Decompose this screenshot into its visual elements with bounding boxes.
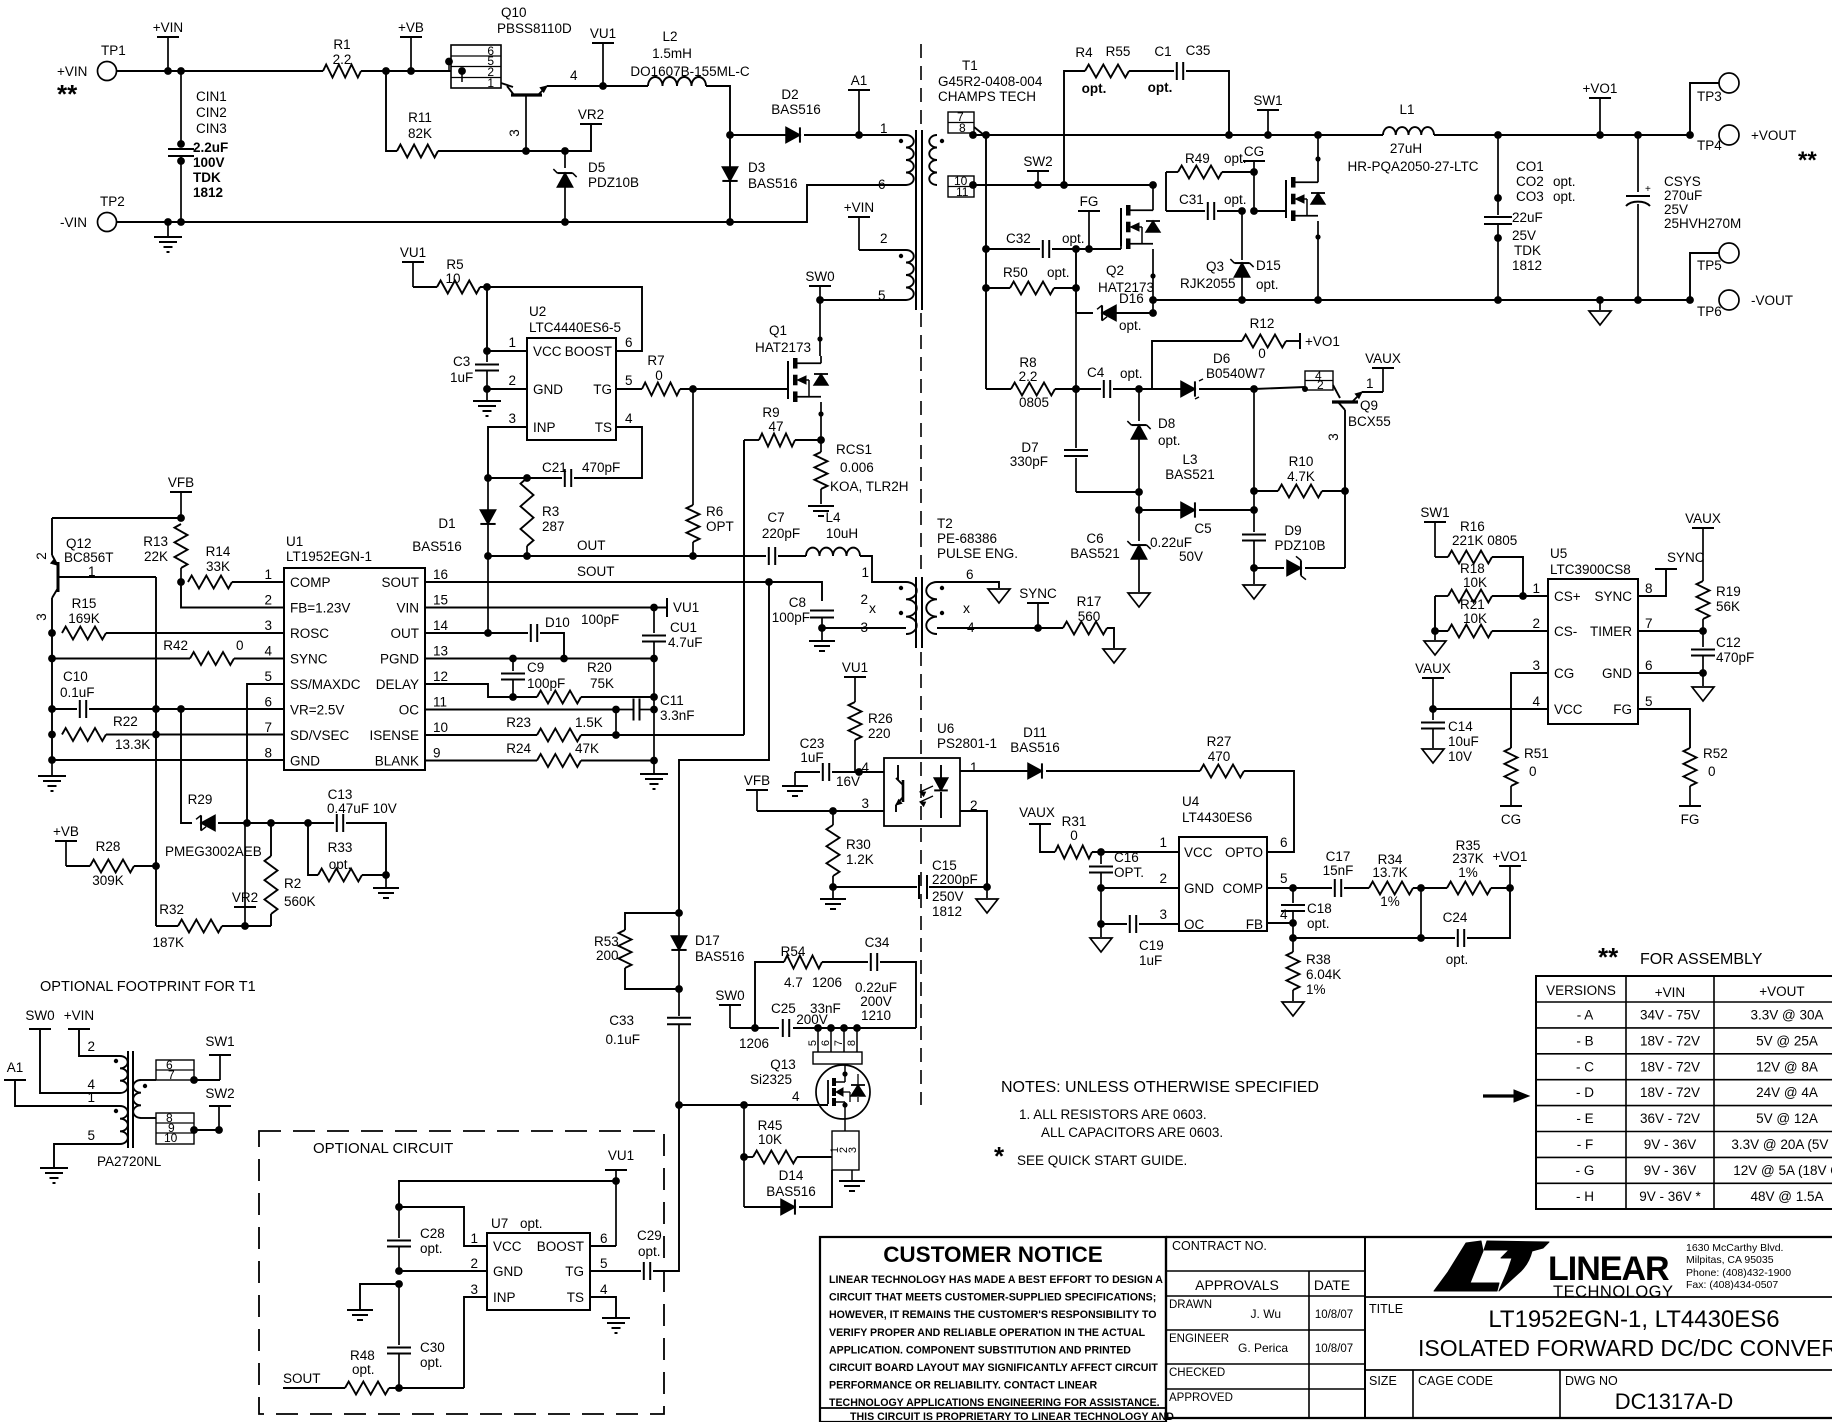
svg-text:1: 1 <box>87 1090 95 1105</box>
svg-text:2: 2 <box>1159 871 1167 886</box>
svg-text:R32: R32 <box>159 902 184 917</box>
svg-text:OPT: OPT <box>706 519 734 534</box>
svg-text:D16: D16 <box>1119 291 1144 306</box>
wire SOUT vertical to lower area <box>679 582 769 913</box>
ground R17 <box>1103 649 1125 663</box>
resistor R48 opt <box>283 1387 345 1389</box>
svg-text:R2: R2 <box>284 876 301 891</box>
svg-text:560K: 560K <box>284 894 316 909</box>
svg-text:PGND: PGND <box>380 652 419 667</box>
svg-text:R23: R23 <box>506 715 531 730</box>
svg-text:7: 7 <box>1645 616 1653 631</box>
svg-text:560: 560 <box>1078 609 1101 624</box>
svg-text:C19: C19 <box>1139 938 1164 953</box>
transformer T1 core <box>915 130 917 310</box>
ground C6 <box>1128 593 1150 607</box>
svg-text:R17: R17 <box>1077 594 1102 609</box>
svg-text:VU1: VU1 <box>590 26 616 41</box>
svg-text:TG: TG <box>565 1264 584 1279</box>
wire U7 BOOST pin6 <box>590 1245 616 1247</box>
svg-text:opt.: opt. <box>352 1362 375 1377</box>
power flag VU1 at R5 <box>402 261 424 263</box>
svg-text:LTC3900CS8: LTC3900CS8 <box>1550 562 1631 577</box>
svg-text:**: ** <box>1798 147 1817 174</box>
svg-text:CU1: CU1 <box>670 620 697 635</box>
svg-text:A1: A1 <box>851 73 868 88</box>
resistor R8 2.2 0805 <box>986 388 1011 390</box>
resistor R19 56K <box>1702 543 1704 581</box>
svg-text:OUT: OUT <box>391 626 420 641</box>
svg-text:VCC: VCC <box>493 1239 522 1254</box>
svg-text:+VO1: +VO1 <box>1493 849 1528 864</box>
svg-text:SOUT: SOUT <box>381 575 419 590</box>
svg-text:opt.: opt. <box>1158 433 1181 448</box>
svg-text:BAS516: BAS516 <box>771 102 821 117</box>
svg-text:470pF: 470pF <box>582 460 620 475</box>
resistor RCS1 0.006 KOA,TLR2H <box>815 452 828 489</box>
svg-text:250V: 250V <box>932 889 964 904</box>
svg-text:0: 0 <box>1708 764 1716 779</box>
resistor R14 33K <box>188 576 232 589</box>
resistor R38 6.04K 1% <box>1287 952 1300 990</box>
capacitor C23 1uF 16V <box>795 771 820 773</box>
svg-text:R14: R14 <box>206 544 231 559</box>
svg-text:2: 2 <box>34 552 49 560</box>
svg-text:5: 5 <box>600 1256 608 1271</box>
svg-text:CG: CG <box>1554 666 1574 681</box>
svg-text:13.7K: 13.7K <box>1372 865 1407 880</box>
svg-text:VU1: VU1 <box>400 245 426 260</box>
svg-text:APPLICATION. COMPONENT SUBSTI: APPLICATION. COMPONENT SUBSTITUTION AND … <box>829 1344 1131 1356</box>
svg-text:R19: R19 <box>1716 584 1741 599</box>
svg-text:Q13: Q13 <box>770 1057 796 1072</box>
svg-text:DELAY: DELAY <box>376 677 419 692</box>
resistor R18 10K <box>1435 595 1448 597</box>
capacitor CSYS 270uF polarized <box>1637 135 1639 192</box>
svg-text:C12: C12 <box>1716 635 1741 650</box>
svg-text:DC1317A-D: DC1317A-D <box>1615 1389 1734 1414</box>
svg-text:GND: GND <box>1602 666 1632 681</box>
ground C15 <box>986 887 988 898</box>
svg-text:0.1uF: 0.1uF <box>60 685 95 700</box>
resistor R9 47 <box>744 439 759 441</box>
svg-text:C3: C3 <box>453 354 470 369</box>
svg-text:SS/MAXDC: SS/MAXDC <box>290 677 361 692</box>
svg-text:SYNC: SYNC <box>1667 550 1705 565</box>
power flag VU1 at CU1 <box>666 598 668 617</box>
power flag VU1 top <box>592 42 614 44</box>
resistor R45 10K <box>743 1105 745 1157</box>
svg-text:CIRCUIT BOARD LAYOUT MAY SIGNI: CIRCUIT BOARD LAYOUT MAY SIGNIFICANTLY A… <box>829 1362 1158 1374</box>
svg-text:BAS516: BAS516 <box>748 176 798 191</box>
power flag VU1 at R26 <box>844 676 866 678</box>
svg-text:PE-68386: PE-68386 <box>937 531 997 546</box>
svg-text:1: 1 <box>1159 835 1167 850</box>
svg-text:6: 6 <box>600 1231 608 1246</box>
svg-text:B0540W7: B0540W7 <box>1206 366 1265 381</box>
svg-text:6: 6 <box>1280 835 1288 850</box>
svg-text:R11: R11 <box>408 110 432 125</box>
resistor R20 75K <box>537 691 581 704</box>
inductor L2 1.5mH DO1607B-155ML-C <box>603 85 648 87</box>
svg-text:2: 2 <box>264 593 272 608</box>
wire T2 pin4 SYNC <box>937 627 1038 629</box>
wire VR2 branch <box>244 823 246 907</box>
svg-text:INP: INP <box>493 1290 516 1305</box>
diode D6 B0540W7 schottky <box>1181 381 1195 396</box>
svg-text:SEE QUICK START GUIDE.: SEE QUICK START GUIDE. <box>1017 1153 1187 1168</box>
diode D14 BAS516 <box>743 1157 745 1207</box>
svg-text:18V - 72V: 18V - 72V <box>1640 1059 1700 1074</box>
wire T1 secondary top rail <box>973 134 1383 136</box>
svg-text:C28: C28 <box>420 1226 445 1241</box>
svg-text:DO1607B-155ML-C: DO1607B-155ML-C <box>630 64 750 79</box>
svg-text:22uF: 22uF <box>1512 210 1543 225</box>
svg-text:D8: D8 <box>1158 416 1175 431</box>
svg-text:9V - 36V: 9V - 36V <box>1644 1163 1697 1178</box>
svg-text:27uH: 27uH <box>1390 141 1422 156</box>
svg-text:SW1: SW1 <box>1420 505 1449 520</box>
capacitor CU1 4.7uF <box>653 608 655 634</box>
svg-text:R15: R15 <box>72 596 97 611</box>
svg-text:+VB: +VB <box>398 20 424 35</box>
svg-text:100V: 100V <box>193 155 225 170</box>
svg-text:10/8/07: 10/8/07 <box>1315 1343 1353 1355</box>
wire GND pin8 <box>48 756 56 764</box>
svg-text:1%: 1% <box>1306 982 1326 997</box>
svg-text:+VOUT: +VOUT <box>1751 128 1796 143</box>
svg-text:R27: R27 <box>1207 734 1232 749</box>
svg-text:R20: R20 <box>587 660 612 675</box>
svg-text:5V @ 25A: 5V @ 25A <box>1756 1033 1818 1048</box>
svg-text:opt.: opt. <box>520 1216 543 1231</box>
svg-text:opt.: opt. <box>1148 80 1173 95</box>
svg-text:SW2: SW2 <box>1023 154 1052 169</box>
diode L3 BAS521 <box>1138 492 1140 510</box>
svg-text:4.7: 4.7 <box>784 975 803 990</box>
svg-text:50V: 50V <box>1179 549 1203 564</box>
svg-text:opt.: opt. <box>1119 318 1142 333</box>
svg-text:- A: - A <box>1577 1008 1594 1023</box>
svg-text:470: 470 <box>1208 749 1231 764</box>
svg-text:U2: U2 <box>529 304 546 319</box>
svg-text:opt.: opt. <box>1256 277 1279 292</box>
wire R1 to +VB node <box>361 70 449 72</box>
svg-text:0.1uF: 0.1uF <box>605 1032 640 1047</box>
svg-text:- B: - B <box>1576 1033 1593 1048</box>
svg-text:33K: 33K <box>206 559 230 574</box>
resistor R23 1.5K <box>537 729 581 742</box>
svg-text:+VIN: +VIN <box>57 64 87 79</box>
transformer PA2720NL secondary upper <box>133 1080 141 1118</box>
svg-text:TP6: TP6 <box>1697 304 1722 319</box>
capacitor C9 100pF <box>512 659 514 672</box>
svg-text:FOR ASSEMBLY: FOR ASSEMBLY <box>1640 951 1763 968</box>
wire C31 to Q3 gate <box>1254 210 1286 212</box>
svg-text:APPROVED: APPROVED <box>1169 1392 1233 1404</box>
transformer T1 secondary 8-10 <box>929 135 937 185</box>
wire VIN pin15 to VU1 <box>425 607 667 609</box>
wire U2 INP pin3 <box>488 427 527 478</box>
capacitor C24 opt <box>1457 929 1459 947</box>
resistor R30 1.2K <box>827 825 840 876</box>
svg-text:opt.: opt. <box>638 1244 661 1259</box>
capacitor C4 opt <box>1076 388 1101 390</box>
svg-text:BCX55: BCX55 <box>1348 414 1391 429</box>
svg-text:T1: T1 <box>962 58 978 73</box>
svg-text:9V - 36V *: 9V - 36V * <box>1639 1189 1701 1204</box>
svg-text:0: 0 <box>1529 764 1537 779</box>
svg-text:CS+: CS+ <box>1554 589 1581 604</box>
svg-text:0: 0 <box>236 638 244 653</box>
wire FG pin5 to R52 <box>1638 709 1690 748</box>
svg-text:CHECKED: CHECKED <box>1169 1367 1225 1379</box>
svg-text:C11: C11 <box>660 693 684 708</box>
svg-text:LINEAR TECHNOLOGY HAS MADE A B: LINEAR TECHNOLOGY HAS MADE A BEST EFFORT… <box>829 1274 1163 1286</box>
svg-text:3: 3 <box>861 796 869 811</box>
svg-text:R50: R50 <box>1003 265 1028 280</box>
node TP6 -VOUT test point <box>1719 290 1739 310</box>
svg-text:COMP: COMP <box>1223 881 1264 896</box>
svg-text:+VIN: +VIN <box>153 20 183 35</box>
svg-text:T2: T2 <box>937 516 953 531</box>
power flag SYNC <box>1027 602 1049 604</box>
svg-text:BAS516: BAS516 <box>412 539 462 554</box>
svg-text:TP2: TP2 <box>100 194 125 209</box>
transistor Q9 BCX55 <box>1344 410 1346 568</box>
svg-text:56K: 56K <box>1716 599 1740 614</box>
resistor R52 0 <box>1684 748 1697 786</box>
svg-text:15: 15 <box>433 593 448 608</box>
node TP1 +VIN test point <box>98 62 117 81</box>
diode D1 BAS516 <box>487 478 489 511</box>
svg-text:C5: C5 <box>1194 521 1211 536</box>
wire FB node down <box>1292 923 1294 938</box>
svg-text:7: 7 <box>168 1068 175 1082</box>
resistor R49 opt <box>1166 171 1178 173</box>
wire D16 column to C4 <box>1075 313 1077 389</box>
resistor R51 0 <box>1505 748 1518 786</box>
power flag VR2 top <box>580 123 602 125</box>
capacitor C8 100pF <box>769 582 822 601</box>
svg-text:OPT.: OPT. <box>1114 865 1144 880</box>
svg-text:RJK2055: RJK2055 <box>1180 276 1236 291</box>
arrow at version D <box>1483 1094 1520 1097</box>
svg-text:237K: 237K <box>1452 851 1484 866</box>
svg-text:10uH: 10uH <box>826 526 858 541</box>
svg-text:1206: 1206 <box>739 1036 769 1051</box>
svg-text:3: 3 <box>507 129 522 137</box>
svg-text:- H: - H <box>1576 1189 1594 1204</box>
svg-text:C29: C29 <box>637 1228 662 1243</box>
svg-text:ISOLATED FORWARD DC/DC CONVERT: ISOLATED FORWARD DC/DC CONVERTER <box>1418 1335 1832 1361</box>
power flag VAUX at Q9 <box>1372 367 1394 369</box>
svg-text:6: 6 <box>966 567 974 582</box>
svg-text:ALL CAPACITORS ARE 0603.: ALL CAPACITORS ARE 0603. <box>1041 1125 1223 1140</box>
svg-text:200: 200 <box>596 948 619 963</box>
svg-text:C31: C31 <box>1179 192 1204 207</box>
svg-text:10: 10 <box>445 271 460 286</box>
ground Q13 <box>851 1170 853 1181</box>
svg-text:opt.: opt. <box>1446 952 1469 967</box>
svg-text:0.22uF: 0.22uF <box>1150 535 1192 550</box>
resistor R50 opt <box>982 284 990 292</box>
wire opto pin2 <box>960 811 987 887</box>
svg-text:SW0: SW0 <box>805 269 834 284</box>
svg-text:G45R2-0408-004: G45R2-0408-004 <box>938 74 1043 89</box>
IC U4 LT4430ES6 <box>1179 837 1267 931</box>
svg-text:220: 220 <box>868 726 891 741</box>
wire TP1 to R1 <box>117 70 323 72</box>
svg-text:ROSC: ROSC <box>290 626 329 641</box>
Q1 body diode <box>814 374 828 385</box>
svg-text:1%: 1% <box>1380 894 1400 909</box>
svg-text:10: 10 <box>433 720 448 735</box>
svg-text:+VO1: +VO1 <box>1305 334 1340 349</box>
svg-text:R38: R38 <box>1306 952 1331 967</box>
resistor R11 82K <box>386 71 397 151</box>
svg-text:1: 1 <box>264 567 272 582</box>
svg-text:10/8/07: 10/8/07 <box>1315 1309 1353 1321</box>
T1 pins 7 8 box <box>948 112 974 133</box>
wire OUT node <box>488 555 766 557</box>
svg-text:TP1: TP1 <box>101 43 126 58</box>
svg-text:FB: FB <box>1246 917 1263 932</box>
svg-text:opt.: opt. <box>1120 366 1143 381</box>
IC U5 LTC3900CS8 <box>1548 579 1638 724</box>
svg-text:6: 6 <box>264 695 272 710</box>
svg-text:GND: GND <box>533 382 563 397</box>
wire ISENSE up to R9 <box>743 440 745 735</box>
svg-text:opt.: opt. <box>1307 916 1330 931</box>
capacitor CO1 CO2 CO3 22uF <box>1497 135 1499 198</box>
svg-text:2: 2 <box>470 1256 478 1271</box>
wire U2 GND pin2 <box>487 388 527 390</box>
wire U7 INP pin3 <box>464 1297 487 1388</box>
diode D5 PDZ10B zener <box>564 151 566 168</box>
svg-text:U4: U4 <box>1182 794 1200 809</box>
svg-text:BAS516: BAS516 <box>695 949 745 964</box>
svg-text:-VIN: -VIN <box>60 215 87 230</box>
svg-text:R7: R7 <box>647 353 664 368</box>
svg-text:1uF: 1uF <box>450 370 473 385</box>
svg-text:4: 4 <box>1280 907 1288 922</box>
svg-text:47: 47 <box>768 419 783 434</box>
svg-text:R55: R55 <box>1106 44 1131 59</box>
net label CG bottom <box>1500 805 1522 807</box>
svg-text:CO3: CO3 <box>1516 189 1544 204</box>
svg-text:6: 6 <box>1645 658 1653 673</box>
svg-text:L2: L2 <box>662 29 677 44</box>
svg-text:1uF: 1uF <box>1139 953 1162 968</box>
svg-text:48V @ 1.5A: 48V @ 1.5A <box>1751 1189 1824 1204</box>
svg-text:PDZ10B: PDZ10B <box>1274 538 1325 553</box>
svg-text:VCC: VCC <box>1184 845 1213 860</box>
svg-text:R13: R13 <box>143 534 168 549</box>
svg-text:SYNC: SYNC <box>1594 589 1632 604</box>
wire CG pin3 to R51 <box>1511 673 1548 748</box>
ground RCS1 <box>808 505 834 507</box>
svg-text:R24: R24 <box>506 741 531 756</box>
svg-text:47K: 47K <box>575 741 599 756</box>
power flag +VO1 at R12 <box>1299 333 1301 349</box>
svg-text:100pF: 100pF <box>527 676 565 691</box>
svg-text:11: 11 <box>956 185 969 199</box>
wire SOUT branch D17 R53 <box>675 909 683 917</box>
diode D2 BAS516 <box>730 134 786 136</box>
ground R38 <box>1282 1002 1304 1016</box>
svg-text:VAUX: VAUX <box>1019 805 1055 820</box>
svg-text:2.2: 2.2 <box>333 52 352 67</box>
power flag A1 <box>848 89 870 91</box>
svg-text:0: 0 <box>1258 346 1266 361</box>
svg-text:ISENSE: ISENSE <box>369 728 419 743</box>
capacitor C16 OPT <box>1100 852 1102 864</box>
svg-text:FG: FG <box>1613 702 1632 717</box>
ground PA2720NL <box>40 1167 68 1169</box>
power flag +VIN at T1 <box>848 216 870 218</box>
svg-text:24V @ 4A: 24V @ 4A <box>1756 1085 1818 1100</box>
inductor L1 27uH HR-PQA2050-27-LTC <box>1383 127 1434 135</box>
svg-text:16V: 16V <box>836 774 860 789</box>
svg-text:5: 5 <box>807 1040 819 1046</box>
svg-text:1630 McCarthy Blvd.: 1630 McCarthy Blvd. <box>1686 1242 1783 1254</box>
svg-text:LTC4440ES6-5: LTC4440ES6-5 <box>529 320 621 335</box>
svg-text:220pF: 220pF <box>762 526 800 541</box>
svg-text:C4: C4 <box>1087 365 1105 380</box>
capacitor C33 0.1uF <box>678 989 680 1016</box>
svg-text:PULSE ENG.: PULSE ENG. <box>937 546 1018 561</box>
svg-text:R8: R8 <box>1019 355 1036 370</box>
ground C14 <box>1422 749 1444 763</box>
svg-text:C34: C34 <box>865 935 890 950</box>
capacitor C1 C35 opt <box>1129 70 1174 72</box>
wire C32 R50 vertical <box>1075 249 1077 313</box>
svg-text:8: 8 <box>846 1040 858 1046</box>
capacitor C21 470pF <box>488 477 562 479</box>
pins 6 7 box optional <box>141 1079 156 1081</box>
svg-text:CONTRACT NO.: CONTRACT NO. <box>1172 1239 1267 1253</box>
ground U7 <box>395 1280 403 1288</box>
svg-text:Fax: (408)434-0507: Fax: (408)434-0507 <box>1686 1279 1778 1291</box>
svg-text:4: 4 <box>570 68 578 83</box>
svg-text:4.7uF: 4.7uF <box>668 635 703 650</box>
svg-text:3: 3 <box>1326 433 1341 441</box>
svg-text:2: 2 <box>1532 616 1540 631</box>
svg-text:HAT2173: HAT2173 <box>755 340 811 355</box>
svg-text:D11: D11 <box>1023 725 1047 740</box>
svg-text:4: 4 <box>264 644 272 659</box>
capacitor C30 opt <box>398 1284 400 1345</box>
svg-text:25V: 25V <box>1664 202 1688 217</box>
svg-text:CG: CG <box>1501 812 1521 827</box>
connector Q10 pin header 6 5 2 1 <box>451 45 501 88</box>
resistor R4 R55 opt <box>1085 65 1129 78</box>
svg-text:5: 5 <box>1645 694 1653 709</box>
Q13 pin box 1 2 3 <box>832 1131 859 1170</box>
svg-text:22K: 22K <box>144 549 168 564</box>
svg-text:CS-: CS- <box>1554 624 1577 639</box>
svg-text:OUT: OUT <box>577 538 606 553</box>
svg-text:Phone: (408)432-1900: Phone: (408)432-1900 <box>1686 1267 1791 1279</box>
svg-text:D15: D15 <box>1256 258 1281 273</box>
wire TIMER pin7 <box>1638 630 1703 632</box>
svg-text:opt.: opt. <box>1553 174 1576 189</box>
svg-text:RCS1: RCS1 <box>836 442 872 457</box>
svg-text:C7: C7 <box>767 510 784 525</box>
svg-text:D1: D1 <box>438 516 455 531</box>
power flag VR2 lower <box>234 906 256 908</box>
